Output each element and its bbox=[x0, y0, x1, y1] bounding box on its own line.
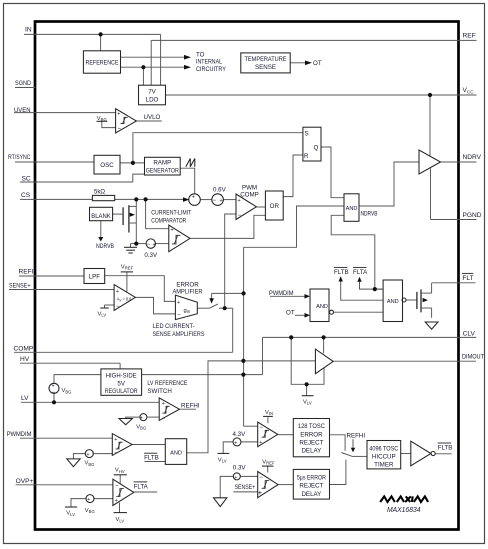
svg-text:SENSE: SENSE bbox=[255, 64, 276, 71]
svg-text:BLANK: BLANK bbox=[91, 213, 111, 220]
svg-text:NDRVB: NDRVB bbox=[96, 243, 114, 250]
svg-text:0.3V: 0.3V bbox=[144, 252, 158, 259]
svg-text:OT: OT bbox=[286, 309, 295, 316]
svg-text:−: − bbox=[162, 416, 166, 422]
svg-text:ERROR: ERROR bbox=[176, 281, 199, 288]
svg-text:LED CURRENT-: LED CURRENT- bbox=[153, 323, 195, 330]
svg-text:LV REFERENCE: LV REFERENCE bbox=[147, 380, 187, 387]
svg-text:+: + bbox=[117, 112, 120, 118]
svg-text:SC: SC bbox=[22, 176, 31, 183]
svg-text:LPF: LPF bbox=[89, 274, 101, 281]
svg-text:+: + bbox=[87, 452, 90, 458]
svg-text:+: + bbox=[192, 194, 195, 200]
svg-text:AMPLIFIER: AMPLIFIER bbox=[173, 289, 203, 296]
svg-text:REFHI: REFHI bbox=[347, 432, 366, 439]
svg-text:OVP+: OVP+ bbox=[16, 478, 34, 485]
svg-text:UVEN: UVEN bbox=[14, 107, 31, 114]
svg-text:+: + bbox=[52, 383, 55, 389]
svg-text:AV = 9.9: AV = 9.9 bbox=[117, 296, 132, 302]
svg-text:VBG: VBG bbox=[85, 508, 95, 514]
svg-text:0.6V: 0.6V bbox=[213, 186, 227, 193]
svg-text:OT: OT bbox=[313, 60, 322, 67]
svg-text:FLTB: FLTB bbox=[438, 445, 453, 452]
svg-text:OSC: OSC bbox=[100, 162, 114, 169]
svg-text:−: − bbox=[114, 450, 118, 456]
svg-text:VBG: VBG bbox=[136, 424, 146, 430]
svg-text:5kΩ: 5kΩ bbox=[94, 188, 106, 195]
svg-text:LV: LV bbox=[21, 395, 29, 402]
svg-text:REJECT: REJECT bbox=[299, 440, 323, 447]
svg-text:REGULATOR: REGULATOR bbox=[105, 388, 138, 395]
svg-text:5V: 5V bbox=[117, 380, 125, 387]
svg-text:VBG: VBG bbox=[85, 461, 95, 467]
svg-text:VHV: VHV bbox=[115, 468, 125, 474]
svg-text:4.3V: 4.3V bbox=[233, 431, 247, 438]
svg-text:AND: AND bbox=[170, 450, 182, 456]
svg-text:+: + bbox=[171, 228, 174, 234]
svg-text:CS: CS bbox=[21, 192, 31, 199]
svg-text:7V: 7V bbox=[148, 89, 156, 96]
svg-text:SGND: SGND bbox=[15, 80, 31, 87]
svg-text:FLTB: FLTB bbox=[334, 269, 349, 276]
svg-text:COMP: COMP bbox=[240, 192, 259, 199]
svg-text:REJECT: REJECT bbox=[299, 483, 323, 490]
svg-text:NDRV: NDRV bbox=[463, 154, 482, 161]
svg-text:5µs ERROR: 5µs ERROR bbox=[297, 474, 326, 481]
svg-text:gm: gm bbox=[184, 308, 191, 314]
svg-text:R: R bbox=[304, 153, 309, 160]
svg-text:VBG: VBG bbox=[62, 388, 72, 394]
svg-text:OR: OR bbox=[270, 203, 280, 210]
svg-text:+: + bbox=[87, 497, 90, 503]
svg-text:REFERENCE: REFERENCE bbox=[86, 59, 119, 66]
svg-text:−: − bbox=[213, 198, 217, 204]
svg-text:VBG: VBG bbox=[97, 116, 107, 122]
svg-text:0.3V: 0.3V bbox=[233, 465, 247, 472]
svg-text:FLTB: FLTB bbox=[144, 455, 159, 462]
svg-text:LDO: LDO bbox=[146, 97, 159, 104]
svg-text:REFHI: REFHI bbox=[181, 402, 200, 409]
svg-text:+: + bbox=[220, 198, 223, 204]
svg-text:HICCUP: HICCUP bbox=[372, 454, 396, 461]
svg-text:VIN: VIN bbox=[265, 410, 273, 416]
svg-text:MAX16834: MAX16834 bbox=[387, 507, 421, 514]
svg-text:SENSE+: SENSE+ bbox=[235, 484, 256, 491]
svg-text:HIGH-SIDE: HIGH-SIDE bbox=[106, 373, 137, 380]
svg-text:+: + bbox=[114, 437, 117, 443]
svg-text:+: + bbox=[116, 289, 119, 295]
svg-text:COMP: COMP bbox=[14, 345, 34, 352]
svg-text:SWITCH: SWITCH bbox=[147, 388, 171, 395]
svg-text:VLV: VLV bbox=[116, 517, 125, 523]
svg-text:ERROR: ERROR bbox=[300, 431, 323, 438]
svg-text:AND: AND bbox=[387, 299, 399, 305]
svg-text:INTERNAL: INTERNAL bbox=[196, 59, 222, 66]
svg-text:VLV: VLV bbox=[303, 399, 312, 405]
svg-text:PWMDIM: PWMDIM bbox=[269, 290, 294, 297]
svg-text:−: − bbox=[115, 483, 119, 489]
svg-text:VREF: VREF bbox=[262, 459, 275, 465]
svg-text:REF: REF bbox=[463, 33, 476, 40]
svg-text:+: + bbox=[259, 440, 262, 446]
svg-text:CLV: CLV bbox=[463, 330, 476, 337]
svg-text:VLV: VLV bbox=[66, 511, 75, 517]
svg-text:+: + bbox=[258, 488, 263, 497]
svg-text:+: + bbox=[153, 242, 156, 248]
svg-text:REFI: REFI bbox=[19, 269, 34, 276]
svg-text:RAMP: RAMP bbox=[153, 160, 171, 167]
svg-text:+: + bbox=[140, 416, 143, 422]
svg-text:FLTA: FLTA bbox=[134, 484, 149, 491]
svg-text:−: − bbox=[118, 126, 122, 132]
svg-text:VLV: VLV bbox=[98, 311, 107, 317]
svg-text:−: − bbox=[147, 242, 151, 248]
svg-text:−: − bbox=[259, 475, 263, 481]
svg-text:CIRCUITRY: CIRCUITRY bbox=[196, 66, 226, 73]
svg-text:PWM: PWM bbox=[242, 184, 257, 191]
svg-text:+: + bbox=[238, 198, 241, 204]
svg-text:DELAY: DELAY bbox=[301, 448, 321, 455]
svg-text:HV: HV bbox=[20, 356, 30, 363]
svg-text:SENSE+: SENSE+ bbox=[9, 283, 31, 290]
svg-text:+: + bbox=[234, 475, 237, 481]
svg-text:COMPARATOR: COMPARATOR bbox=[151, 217, 186, 224]
svg-text:NDRVB: NDRVB bbox=[361, 210, 378, 217]
svg-text:PWMDIM: PWMDIM bbox=[7, 431, 32, 438]
svg-text:AND: AND bbox=[346, 206, 358, 212]
svg-text:VLV: VLV bbox=[218, 457, 227, 463]
svg-text:4096 TOSC: 4096 TOSC bbox=[369, 446, 398, 453]
svg-text:VREF: VREF bbox=[121, 264, 134, 270]
svg-text:−: − bbox=[259, 425, 263, 431]
svg-text:CURRENT-LIMIT: CURRENT-LIMIT bbox=[151, 210, 191, 217]
svg-text:−: − bbox=[177, 313, 181, 319]
svg-text:AND: AND bbox=[316, 304, 328, 310]
svg-text:+: + bbox=[162, 401, 165, 407]
svg-text:FLT: FLT bbox=[462, 275, 473, 282]
svg-text:−: − bbox=[238, 213, 242, 219]
svg-text:+: + bbox=[177, 300, 180, 306]
svg-text:Q: Q bbox=[314, 145, 319, 152]
svg-text:GENERATOR: GENERATOR bbox=[146, 167, 179, 174]
svg-text:PGND: PGND bbox=[463, 212, 482, 219]
svg-text:IN: IN bbox=[25, 26, 32, 33]
svg-text:+: + bbox=[115, 498, 118, 504]
svg-text:TIMER: TIMER bbox=[374, 462, 394, 469]
svg-text:−: − bbox=[52, 390, 56, 396]
svg-text:DIMOUT: DIMOUT bbox=[462, 354, 484, 361]
svg-text:UVLO: UVLO bbox=[144, 114, 161, 121]
svg-text:128 TOSC: 128 TOSC bbox=[298, 423, 325, 430]
svg-text:SENSE AMPLIFIERS: SENSE AMPLIFIERS bbox=[153, 331, 205, 338]
svg-text:S: S bbox=[305, 131, 309, 138]
svg-text:FLTA: FLTA bbox=[353, 269, 368, 276]
svg-text:TEMPERATURE: TEMPERATURE bbox=[245, 56, 287, 63]
svg-text:TO: TO bbox=[196, 52, 205, 59]
svg-text:RT/SYNC: RT/SYNC bbox=[8, 154, 31, 161]
svg-text:DELAY: DELAY bbox=[301, 491, 321, 498]
svg-text:+: + bbox=[234, 441, 237, 447]
svg-text:−: − bbox=[116, 304, 120, 310]
